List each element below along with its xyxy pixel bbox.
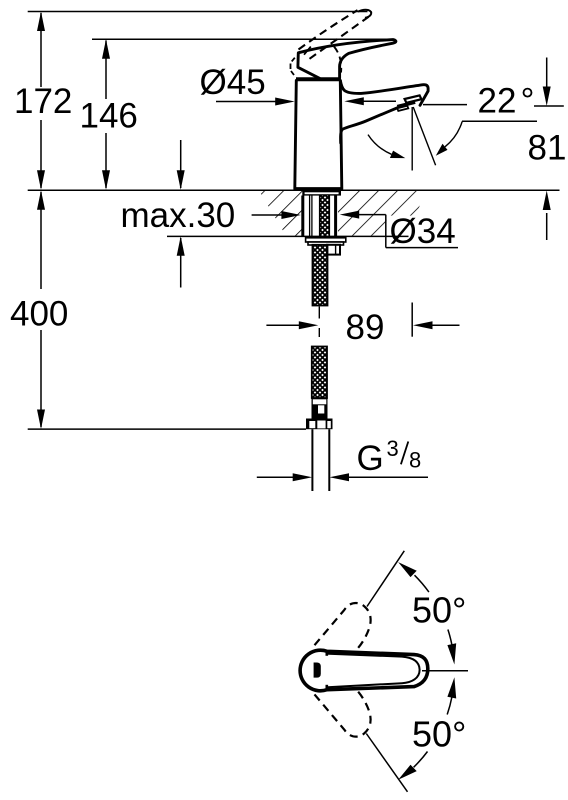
- svg-text:81: 81: [528, 129, 567, 168]
- svg-text:50°: 50°: [412, 714, 466, 755]
- svg-text:8: 8: [409, 448, 421, 473]
- svg-text:22°: 22°: [478, 82, 535, 121]
- svg-text:Ø34: Ø34: [390, 212, 456, 251]
- svg-text:89: 89: [346, 308, 385, 347]
- svg-text:Ø45: Ø45: [200, 63, 266, 102]
- svg-text:400: 400: [10, 295, 68, 334]
- svg-text:G: G: [357, 439, 384, 478]
- svg-text:3: 3: [387, 436, 399, 461]
- svg-text:146: 146: [80, 96, 138, 135]
- svg-text:50°: 50°: [412, 590, 466, 631]
- svg-text:max.30: max.30: [121, 196, 236, 235]
- svg-text:172: 172: [14, 82, 72, 121]
